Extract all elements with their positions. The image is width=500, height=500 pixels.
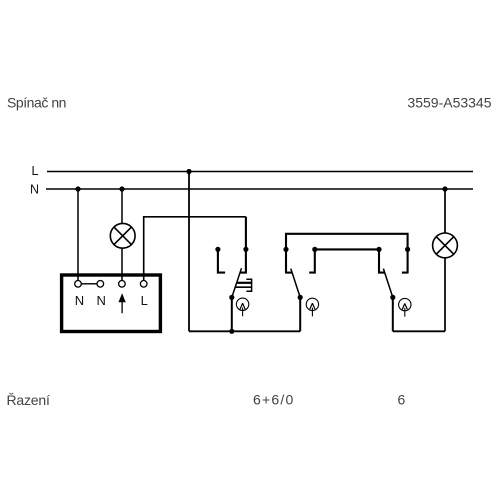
node S2 right pivot [390,295,395,300]
wire N to lamp E1 top [121,189,123,224]
svg-text:L: L [32,164,39,178]
wire N to lamp E2 top [444,189,446,233]
wire N line [46,188,473,190]
device box [62,275,161,332]
wire L down to bottom rail [188,172,190,332]
wire S2 left pivot to bottom rail [299,297,301,331]
svg-text:N: N [97,293,106,308]
wire L line [47,171,473,173]
svg-text:Spínač nn: Spínač nn [7,95,66,111]
switch S2 left indicator glow lamp [306,298,318,316]
switch S2 bridge wire [315,248,379,250]
terminal N2 [97,281,104,288]
wire lamp E1 to terminal arrow [121,248,123,280]
svg-text:3559-A53345: 3559-A53345 [407,95,491,111]
node S2 left pivot [298,295,303,300]
node N junction 2 [119,186,124,191]
wire lamp E2 bottom down [444,258,446,331]
wire terminal L up-over to switch S1 contact [144,217,246,281]
switch S2 right indicator glow lamp [399,298,411,316]
switch S2 left unit lever [291,269,300,298]
terminal arrow symbol [119,295,125,314]
lamp E2 [433,233,458,258]
node S2 frame left contact [283,247,288,252]
wire bottom rail left [189,330,300,332]
switch S1 push-button: left fixed contact [218,249,225,272]
switch S2 right unit: right contact foot [402,272,408,274]
node S2 frame right contact [405,247,410,252]
svg-text:6: 6 [398,392,406,408]
wire S1 pivot to bottom rail [231,297,233,331]
switch S2 left unit: right fixed contact [309,249,315,272]
node L junction [186,169,191,174]
node N junction right [442,186,447,191]
wire bottom rail right [393,330,445,332]
svg-text:Řazení: Řazení [7,392,50,408]
node S1 pivot [229,295,234,300]
node S2 bridge left contact [312,247,317,252]
terminal L [140,281,147,288]
switch S1 lever [232,268,242,297]
wire S2 right pivot down [392,297,394,331]
node S2 bridge right contact [376,247,381,252]
node S1 right contact [243,247,248,252]
switch S2 frame [286,234,408,274]
switch S1 push actuator [235,279,251,291]
wire N to terminal N1 [77,189,79,281]
terminal arrow input [119,281,126,288]
wire terminal N1-N2 link [81,283,97,285]
svg-text:6+6/0: 6+6/0 [253,392,294,408]
switch S2 left unit: left contact foot [286,272,292,274]
svg-text:N: N [30,183,39,197]
node N junction 1 [75,186,80,191]
switch S2 right unit lever [383,269,392,298]
lamp E1 [110,223,135,248]
node S1 left contact [215,247,220,252]
switch S2 right unit: left fixed contact [379,249,385,272]
svg-text:N: N [75,293,84,308]
node bottom rail junction [229,329,234,334]
switch S1 indicator glow lamp [236,298,248,316]
svg-text:L: L [141,293,148,308]
switch S1: right fixed contact [240,217,246,273]
terminal N1 [75,281,82,288]
